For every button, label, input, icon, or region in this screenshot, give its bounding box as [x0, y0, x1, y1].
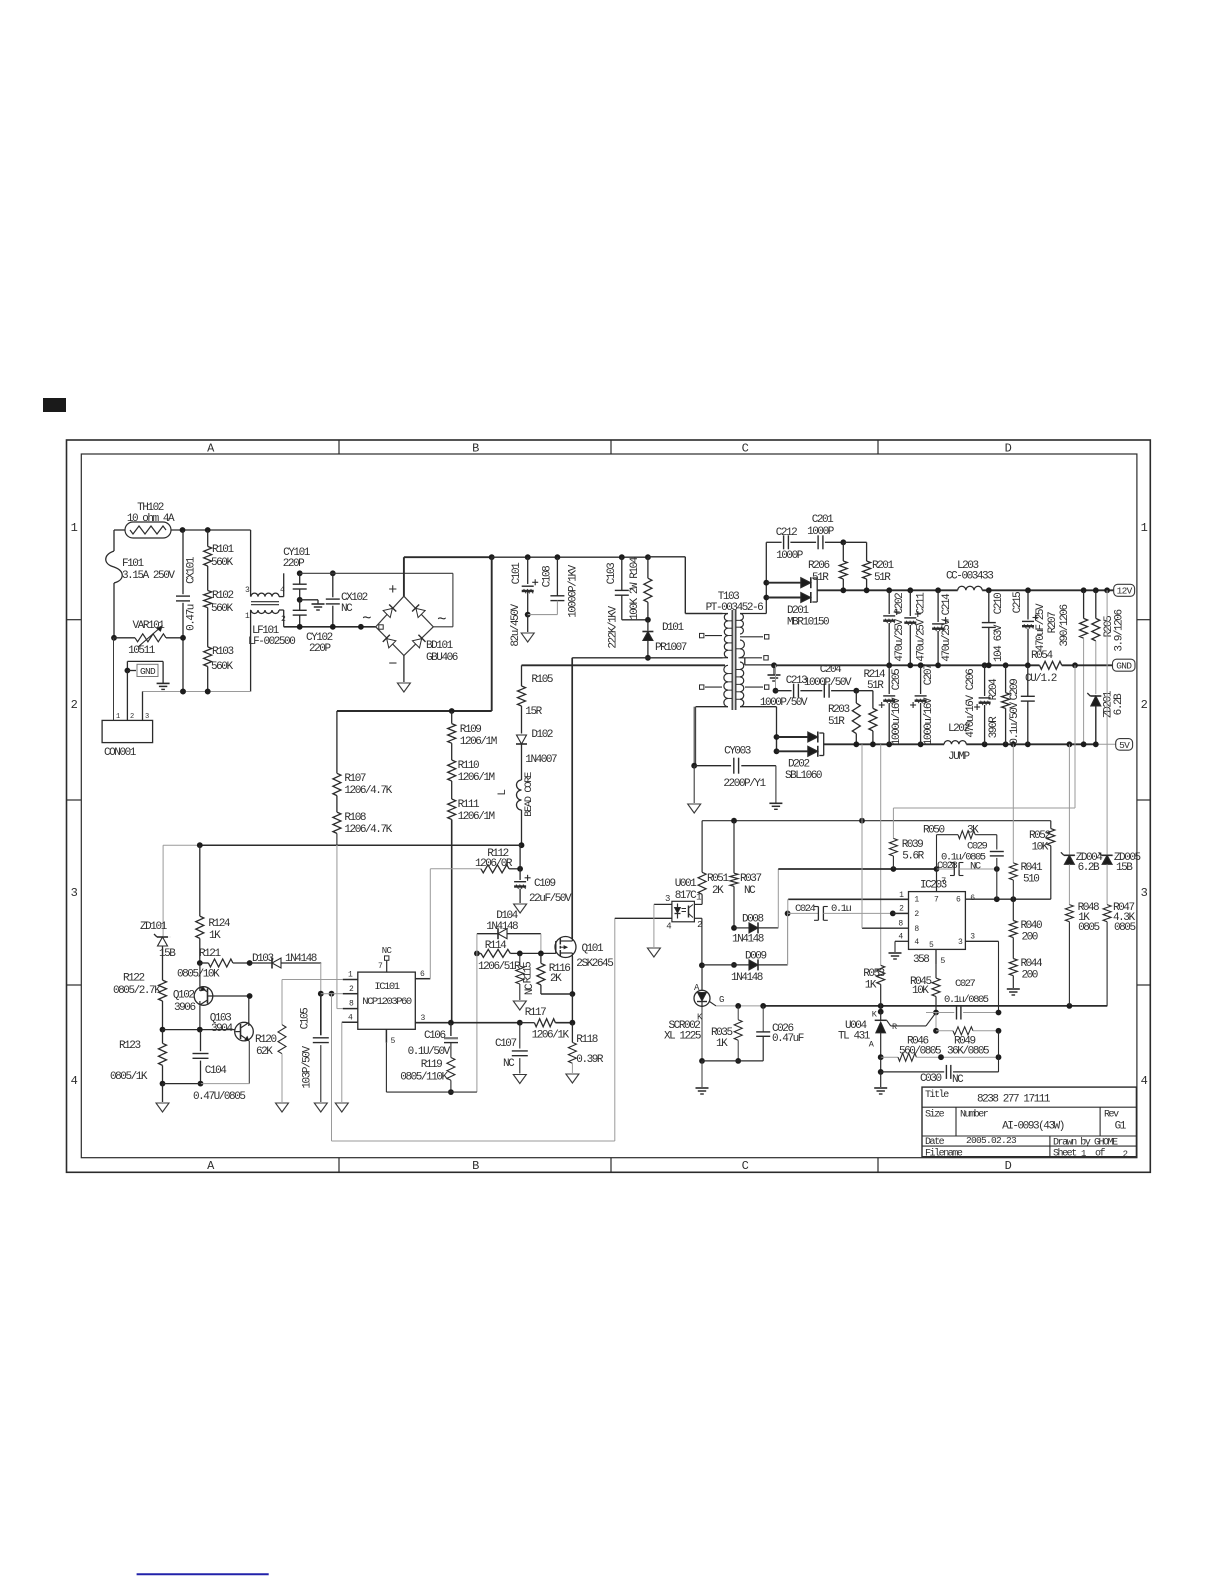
capacitor C105	[300, 991, 329, 1102]
svg-text:NCP1203P60: NCP1203P60	[362, 996, 412, 1008]
diode D202	[774, 732, 824, 783]
svg-text:R107: R107	[344, 773, 365, 785]
resistor R105	[518, 665, 553, 733]
svg-text:1K: 1K	[209, 930, 221, 942]
resistor R101	[204, 530, 235, 569]
wire snubber top link	[763, 539, 866, 613]
zener diode ZD004	[1061, 744, 1103, 904]
svg-text:82u/450V: 82u/450V	[510, 604, 522, 647]
svg-text:390R: 390R	[988, 716, 1000, 738]
svg-text:D: D	[1005, 1159, 1012, 1173]
resistor R054	[1025, 650, 1062, 685]
svg-text:R041: R041	[1021, 862, 1043, 874]
resistor R114	[474, 940, 544, 973]
resistor R205	[1092, 590, 1126, 694]
resistor R053	[863, 744, 885, 1006]
svg-text:C105: C105	[300, 1008, 312, 1029]
svg-text:2: 2	[899, 905, 904, 914]
svg-text:0.1u/0805: 0.1u/0805	[944, 994, 989, 1006]
transistor Q102	[173, 963, 250, 1030]
zener diode ZD005	[1099, 590, 1141, 904]
svg-text:AI-0093(43W): AI-0093(43W)	[1002, 1121, 1064, 1133]
ground earth CY003	[769, 803, 782, 809]
svg-text:C204: C204	[820, 664, 842, 676]
svg-text:R108: R108	[344, 812, 365, 824]
svg-text:NC: NC	[341, 603, 353, 615]
svg-text:R039: R039	[902, 839, 923, 851]
resistor R046	[878, 1036, 1002, 1062]
svg-text:1000P: 1000P	[776, 550, 804, 562]
resistor R051	[698, 821, 729, 905]
svg-text:C215: C215	[1012, 592, 1024, 613]
svg-text:12V: 12V	[1117, 586, 1133, 597]
svg-text:1000P: 1000P	[807, 526, 835, 538]
wire IC101 pin6 to R112	[429, 869, 431, 979]
resistor R112	[430, 848, 523, 873]
drawing frame	[67, 440, 1151, 1173]
wire GND rail	[774, 662, 1113, 668]
resistor R102	[204, 566, 234, 615]
svg-text:22uF/50V: 22uF/50V	[529, 893, 572, 905]
svg-text:R105: R105	[531, 674, 552, 686]
svg-text:470uF/25V: 470uF/25V	[1035, 603, 1047, 651]
svg-text:0805/10K: 0805/10K	[177, 969, 220, 981]
svg-text:1: 1	[116, 713, 120, 721]
svg-text:1000u/16V: 1000u/16V	[923, 697, 935, 745]
svg-text:R114: R114	[485, 940, 507, 952]
svg-text:8238 277 17111: 8238 277 17111	[977, 1094, 1051, 1106]
svg-text:R102: R102	[212, 590, 233, 602]
svg-text:2200P/Y1: 2200P/Y1	[723, 778, 766, 790]
optocoupler U001	[654, 878, 702, 932]
resistor R123	[110, 1027, 167, 1087]
wire input bottom rail	[143, 689, 251, 695]
wire Q101 source	[570, 957, 576, 1023]
svg-text:3: 3	[970, 933, 975, 942]
svg-text:1206/0R: 1206/0R	[475, 858, 513, 870]
svg-text:Sheet: Sheet	[1053, 1148, 1076, 1160]
capacitor C029	[941, 835, 1004, 873]
svg-text:ZD101: ZD101	[140, 921, 168, 933]
resistor R124	[196, 845, 231, 966]
svg-text:1000u/16V: 1000u/16V	[891, 697, 903, 745]
ground arrow IC101 pin4	[335, 1022, 348, 1112]
diode D008	[731, 869, 778, 946]
svg-text:200: 200	[1022, 970, 1038, 982]
svg-text:CY003: CY003	[724, 746, 751, 758]
svg-text:1N4148: 1N4148	[732, 934, 764, 946]
wire opto rail	[702, 818, 1051, 824]
svg-text:6: 6	[420, 970, 425, 979]
svg-text:LF-002500: LF-002500	[248, 636, 295, 648]
svg-text:R109: R109	[460, 724, 481, 736]
op-amp IC203	[862, 869, 965, 966]
wire IC101 pin3 rail	[415, 1020, 575, 1026]
svg-text:CU/1.2: CU/1.2	[1025, 673, 1057, 685]
svg-text:C212: C212	[776, 527, 797, 539]
svg-text:R040: R040	[1021, 920, 1042, 932]
title block	[922, 1087, 1136, 1159]
capacitor C204	[800, 664, 856, 698]
svg-text:C030: C030	[920, 1073, 941, 1085]
ground arrow C107	[513, 1075, 526, 1084]
svg-text:1N4007: 1N4007	[525, 754, 557, 766]
resistor R116	[537, 953, 573, 994]
svg-text:4: 4	[348, 1014, 353, 1023]
diode D104	[477, 910, 541, 953]
svg-text:7: 7	[934, 896, 939, 905]
mosfet Q101	[555, 937, 613, 971]
svg-text:100K 2W R104: 100K 2W R104	[629, 556, 641, 620]
svg-text:1K: 1K	[716, 1038, 728, 1050]
diode D102	[516, 729, 557, 780]
wire snubber return	[572, 657, 722, 659]
shunt regulator U004 TL431	[838, 1006, 936, 1057]
ground arrow R118	[566, 1074, 579, 1083]
capacitor C109	[514, 845, 572, 905]
zener diode ZD201	[1087, 690, 1125, 744]
svg-text:−: −	[388, 656, 397, 673]
svg-text:1206/1M: 1206/1M	[460, 736, 497, 748]
svg-text:+: +	[388, 582, 397, 599]
resistor R120	[255, 980, 286, 1103]
svg-text:0805/1K: 0805/1K	[110, 1071, 148, 1083]
wire D104 feedback drop	[476, 934, 478, 1092]
svg-text:Filename: Filename	[925, 1148, 963, 1160]
capacitor C206	[965, 665, 991, 744]
resistor R108	[333, 796, 393, 846]
resistor R115	[516, 953, 536, 1000]
ground arrow R123	[156, 1084, 169, 1112]
capacitor C101	[510, 554, 538, 646]
svg-text:0.47uF: 0.47uF	[772, 1033, 804, 1045]
svg-text:R123: R123	[119, 1040, 140, 1052]
svg-text:R117: R117	[525, 1007, 546, 1019]
svg-text:Q102: Q102	[173, 990, 194, 1002]
svg-text:2SK2645: 2SK2645	[576, 958, 613, 970]
svg-text:R201: R201	[872, 560, 894, 572]
svg-text:560K: 560K	[211, 557, 233, 569]
svg-text:1: 1	[914, 896, 919, 905]
svg-text:Date: Date	[925, 1137, 945, 1148]
resistor R121	[177, 948, 253, 981]
svg-text:CON001: CON001	[104, 747, 137, 759]
svg-text:of: of	[1095, 1148, 1106, 1160]
wire 12V rail	[840, 587, 1113, 593]
wire gate line	[520, 952, 556, 954]
svg-text:510: 510	[1023, 874, 1039, 886]
svg-text:220P: 220P	[283, 558, 305, 570]
svg-text:R101: R101	[212, 544, 234, 556]
resistor R047	[1103, 902, 1135, 1006]
svg-text:470u/25V: 470u/25V	[894, 619, 906, 662]
svg-text:3: 3	[1141, 886, 1148, 900]
ground earth input	[157, 661, 170, 689]
diode D101	[642, 617, 686, 661]
footer link line	[137, 1573, 269, 1575]
wire drain node	[571, 658, 573, 938]
ground arrow R115	[513, 1001, 526, 1010]
svg-text:0.47U/0805: 0.47U/0805	[193, 1091, 245, 1103]
svg-text:R119: R119	[421, 1059, 442, 1071]
svg-text:G1: G1	[1115, 1121, 1127, 1133]
svg-text:8: 8	[914, 925, 919, 934]
svg-text:4: 4	[898, 933, 903, 942]
capacitor C026	[702, 1006, 804, 1061]
svg-text:D202: D202	[788, 759, 809, 771]
capacitor C210	[982, 590, 1005, 665]
svg-text:15B: 15B	[159, 948, 176, 960]
resistor R050	[923, 825, 997, 870]
svg-text:R051: R051	[707, 873, 729, 885]
svg-text:R110: R110	[458, 760, 479, 772]
resistor R035	[711, 1006, 742, 1064]
svg-text:3: 3	[71, 886, 78, 900]
svg-text:C: C	[742, 1159, 749, 1173]
wire IC101 pin1 line	[282, 979, 343, 981]
svg-text:R120: R120	[255, 1034, 276, 1046]
svg-text:1206/1K: 1206/1K	[532, 1030, 570, 1042]
svg-text:C109: C109	[534, 878, 555, 890]
svg-text:2005.02.23: 2005.02.23	[966, 1135, 1017, 1146]
svg-text:3: 3	[665, 894, 670, 904]
resistor R044	[1009, 938, 1043, 988]
svg-text:390/1206: 390/1206	[1059, 605, 1071, 647]
svg-text:7: 7	[378, 962, 383, 971]
svg-text:1206/4.7K: 1206/4.7K	[344, 785, 392, 797]
capacitor C027	[936, 978, 1001, 1020]
transistor Q103	[210, 993, 254, 1084]
wire R045 C027 line	[926, 1012, 936, 1014]
thyristor SCR002	[664, 965, 724, 1042]
capacitor C205	[879, 665, 903, 745]
resistor R109	[448, 711, 497, 748]
wire AC bottom to bridge	[284, 624, 376, 630]
ground arrow C109	[514, 904, 527, 913]
svg-text:C104: C104	[205, 1065, 227, 1077]
resistor R204	[988, 665, 1010, 744]
ground arrow bridge minus	[397, 656, 410, 693]
svg-text:R044: R044	[1021, 958, 1043, 970]
capacitor CY003	[691, 707, 776, 804]
svg-text:104 63V: 104 63V	[993, 624, 1005, 662]
svg-text:C107: C107	[495, 1038, 516, 1050]
wire AC line top	[114, 527, 251, 533]
svg-text:Rev: Rev	[1104, 1110, 1119, 1121]
svg-text:2: 2	[1141, 698, 1148, 712]
svg-text:D102: D102	[531, 729, 552, 741]
ground arrow U001 pin3	[647, 904, 660, 957]
svg-text:3.15A 250V: 3.15A 250V	[122, 570, 175, 582]
resistor R045	[910, 965, 940, 1016]
inductor bead core	[497, 772, 535, 848]
svg-text:2: 2	[1123, 1150, 1128, 1160]
svg-text:R206: R206	[808, 560, 829, 572]
svg-text:Number: Number	[960, 1109, 989, 1121]
svg-text:1000P/50V: 1000P/50V	[804, 677, 852, 689]
svg-text:BEAD CORE: BEAD CORE	[523, 772, 535, 817]
svg-text:5: 5	[940, 956, 945, 966]
svg-text:IC101: IC101	[374, 981, 399, 993]
resistor R041	[1009, 744, 1043, 899]
svg-text:10511: 10511	[128, 645, 156, 657]
capacitor C207	[910, 664, 935, 745]
ground arrow CY003	[688, 766, 701, 813]
wire startup to IC101 pin8	[337, 845, 343, 1008]
svg-text:62K: 62K	[256, 1046, 273, 1058]
resistor R110	[448, 743, 495, 784]
svg-text:R204: R204	[988, 678, 1000, 700]
wire primary rail	[522, 557, 726, 666]
resistor R118	[568, 1023, 604, 1073]
ground earth TL431	[874, 1072, 887, 1094]
svg-text:C211: C211	[916, 592, 928, 614]
thermistor TH102	[125, 502, 175, 538]
svg-text:4: 4	[1141, 1074, 1148, 1088]
svg-text:R122: R122	[123, 973, 144, 985]
svg-text:TL 431: TL 431	[838, 1031, 871, 1043]
svg-text:JUMP: JUMP	[948, 751, 970, 763]
svg-text:R121: R121	[199, 948, 221, 960]
svg-text:0805/110K: 0805/110K	[400, 1072, 448, 1084]
resistor R103	[204, 608, 234, 695]
varistor VAR101	[111, 620, 183, 657]
wire IC203 pin1 line	[788, 899, 909, 965]
svg-text:Size: Size	[925, 1109, 945, 1121]
ground earth CY mid	[300, 600, 325, 610]
svg-text:D101: D101	[662, 622, 684, 634]
svg-text:Q101: Q101	[582, 943, 604, 955]
svg-text:6.2B: 6.2B	[1078, 862, 1100, 874]
svg-text:∼: ∼	[362, 610, 371, 627]
svg-text:0.39R: 0.39R	[576, 1054, 604, 1066]
wire IC203 pin5	[929, 941, 945, 966]
capacitor CX102	[326, 570, 368, 626]
svg-text:C024: C024	[795, 903, 816, 915]
resistor R040	[1009, 899, 1042, 943]
svg-text:CC-003433: CC-003433	[946, 571, 993, 583]
wire U001 pin2 drop	[699, 918, 705, 968]
svg-text:10000P/1KV: 10000P/1KV	[568, 564, 580, 617]
svg-text:4: 4	[71, 1074, 78, 1088]
svg-text:2: 2	[71, 698, 78, 712]
svg-text:R053: R053	[863, 968, 884, 980]
svg-text:GND: GND	[140, 666, 156, 677]
wire CY101 top to bridge	[300, 573, 453, 627]
svg-text:D201: D201	[787, 605, 809, 617]
svg-text:C210: C210	[993, 593, 1005, 614]
resistor R039	[889, 808, 924, 869]
svg-text:F101: F101	[122, 558, 144, 570]
svg-text:2: 2	[914, 910, 919, 919]
connector CON001	[102, 638, 153, 759]
svg-text:8: 8	[349, 1000, 354, 1009]
svg-text:NC: NC	[970, 861, 981, 873]
resistor R117	[520, 1007, 570, 1042]
svg-text:220P: 220P	[309, 643, 331, 655]
capacitor C030	[878, 1031, 999, 1086]
wire IC101 pin5 rail	[386, 1043, 477, 1092]
svg-text:C201: C201	[812, 514, 834, 526]
wire IC203 pin8 up	[861, 821, 863, 929]
svg-text:R207: R207	[1047, 612, 1059, 633]
wire SCR cathode	[699, 1007, 705, 1087]
capacitor C215	[1012, 590, 1047, 665]
svg-text:R037: R037	[740, 873, 761, 885]
capacitor C107	[495, 1023, 528, 1074]
svg-text:1N4148: 1N4148	[731, 972, 763, 984]
resistor R122	[113, 973, 167, 1030]
inductor L202	[944, 723, 970, 763]
svg-text:U001: U001	[675, 878, 697, 890]
svg-text:A: A	[207, 1159, 215, 1173]
line filter LF101	[245, 530, 295, 692]
wire 5V to opto rail	[861, 744, 863, 820]
svg-text:3.9/1206: 3.9/1206	[1114, 610, 1126, 652]
svg-text:R103: R103	[212, 646, 233, 658]
svg-text:5V: 5V	[1119, 740, 1130, 751]
svg-text:B: B	[472, 1159, 479, 1173]
svg-text:2K: 2K	[712, 885, 724, 897]
svg-text:2: 2	[130, 713, 134, 721]
wire C024 line	[785, 903, 896, 920]
diode D103	[250, 953, 322, 994]
capacitor CY102	[293, 597, 333, 655]
capacitor CY101	[283, 547, 311, 600]
wire HV bus	[337, 557, 648, 714]
GND net tag	[125, 661, 164, 720]
svg-text:G: G	[719, 995, 724, 1005]
svg-text:1206/1M: 1206/1M	[458, 772, 495, 784]
diode D009	[702, 913, 788, 984]
svg-text:0805: 0805	[1078, 922, 1099, 934]
wire startup rail	[163, 842, 521, 848]
capacitor C213	[760, 665, 808, 709]
capacitor C209	[1009, 665, 1035, 744]
svg-text:GBU406: GBU406	[426, 652, 458, 664]
svg-text:3906: 3906	[174, 1002, 195, 1014]
svg-text:NC: NC	[382, 946, 393, 956]
resistor R207	[1047, 590, 1088, 744]
svg-text:3: 3	[420, 1014, 425, 1023]
svg-text:C202: C202	[894, 593, 906, 614]
resistor R104	[629, 554, 652, 620]
svg-text:R052: R052	[1029, 830, 1050, 842]
net tag GND	[1113, 659, 1136, 671]
wire GND to R039 line	[893, 665, 1075, 808]
svg-text:1: 1	[348, 971, 353, 980]
svg-text:5: 5	[929, 941, 934, 950]
capacitor CX101	[176, 530, 198, 694]
svg-text:560/0805: 560/0805	[899, 1046, 941, 1058]
svg-text:51R: 51R	[874, 572, 891, 584]
svg-text:470u/25V: 470u/25V	[941, 619, 953, 662]
svg-text:1000P/50V: 1000P/50V	[760, 697, 808, 709]
svg-text:SBL1060: SBL1060	[785, 770, 822, 782]
svg-text:R050: R050	[923, 825, 944, 837]
svg-text:6: 6	[956, 896, 961, 905]
wire Q103 base rail	[163, 1027, 236, 1033]
net tag 5V	[1116, 739, 1133, 751]
ground arrow C105	[314, 1103, 327, 1112]
svg-text:560K: 560K	[211, 661, 233, 673]
svg-text:560K: 560K	[211, 603, 233, 615]
svg-text:A: A	[869, 1040, 875, 1050]
svg-text:PR1007: PR1007	[655, 642, 687, 654]
op-amp IC101	[342, 946, 431, 1046]
svg-text:R: R	[892, 1022, 897, 1032]
svg-text:15B: 15B	[1116, 862, 1133, 874]
